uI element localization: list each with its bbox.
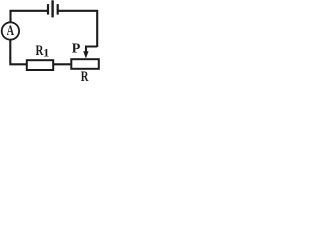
svg-text:R: R [81,69,89,85]
wire top-right horizontal and right vertical down to wiper bend [58,11,97,47]
wire left vertical below ammeter to bottom corner and to R1 [10,40,26,64]
rheostat wiper arrowhead [83,51,88,58]
wiper bend wire from right vertical to arrow shaft [86,47,97,54]
wire between R1 and rheostat [54,63,72,65]
ammeter circle [2,22,19,39]
svg-text:1: 1 [43,46,49,60]
battery long plate [51,0,53,17]
resistor R1 box [27,60,53,70]
battery cell left short plate [47,4,49,15]
svg-text:P: P [72,42,81,57]
svg-text:A: A [7,23,15,39]
battery right short plate [57,4,59,15]
wire top-left horizontal [11,11,48,22]
rheostat R box [71,59,99,69]
